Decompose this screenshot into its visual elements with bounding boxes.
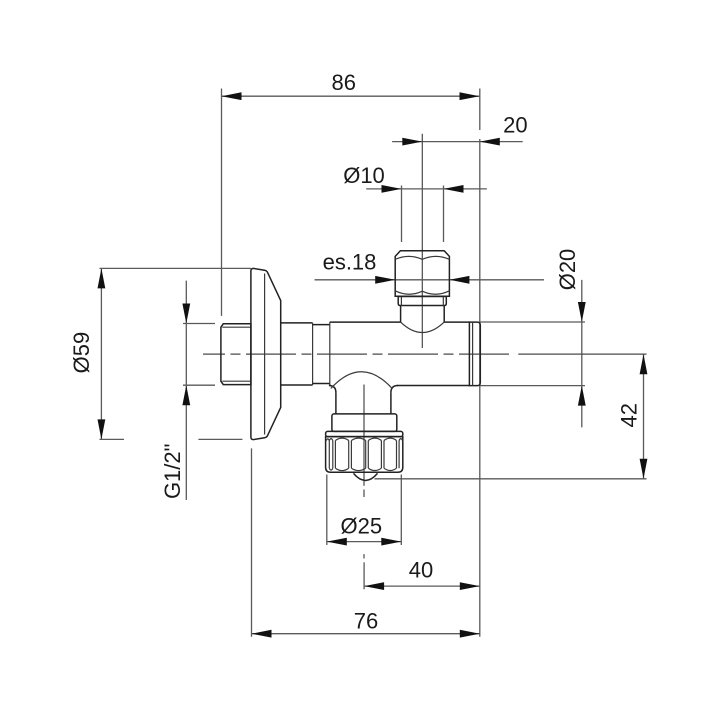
svg-text:G1/2": G1/2": [160, 444, 185, 500]
ext line 86 left: [221, 89, 223, 316]
svg-text:86: 86: [332, 70, 356, 95]
dim O10: [343, 163, 487, 193]
outlet stub: [401, 306, 445, 333]
svg-text:76: 76: [354, 609, 378, 634]
ext line right column lower: [479, 139, 481, 637]
dim 86 line: [222, 70, 480, 100]
knurl ribs: [326, 438, 402, 470]
end collar: [469, 322, 480, 386]
dim G1/2: [160, 281, 215, 500]
svg-text:Ø10: Ø10: [343, 163, 385, 188]
dim O20: [480, 249, 585, 428]
dim es.18: [315, 250, 545, 284]
thread G1/2: [221, 324, 251, 385]
ext line right column upper: [479, 89, 481, 131]
neck groove: [313, 322, 330, 385]
branch tube: [336, 393, 391, 414]
pipe section behind flange: [281, 323, 313, 385]
dim 40: [364, 558, 480, 591]
bonnet block: [332, 414, 397, 432]
dim O25: [327, 475, 402, 546]
main centerline: [203, 353, 510, 355]
main body pipe: [330, 322, 470, 385]
dim 20: [392, 112, 528, 145]
svg-text:Ø59: Ø59: [69, 332, 94, 374]
bottom bump: [354, 473, 378, 480]
branch centerline: [363, 385, 365, 486]
svg-text:42: 42: [617, 403, 642, 427]
svg-text:20: 20: [503, 112, 527, 137]
lip: [326, 431, 403, 436]
outlet centerline: [421, 134, 423, 348]
dim 76: [252, 448, 480, 637]
svg-text:es.18: es.18: [323, 250, 377, 275]
flange rosette: [251, 268, 281, 439]
dim O59: [69, 268, 251, 439]
branch to body fillets and saddle: [329, 372, 398, 393]
knurl cap body: [326, 437, 403, 473]
dim 42: [375, 354, 648, 479]
svg-text:Ø25: Ø25: [341, 513, 383, 538]
svg-text:Ø20: Ø20: [555, 249, 580, 291]
ext lines O10: [401, 186, 403, 243]
hex nut es18: [395, 251, 449, 297]
washer under nut: [398, 297, 446, 306]
svg-text:40: 40: [409, 558, 433, 583]
